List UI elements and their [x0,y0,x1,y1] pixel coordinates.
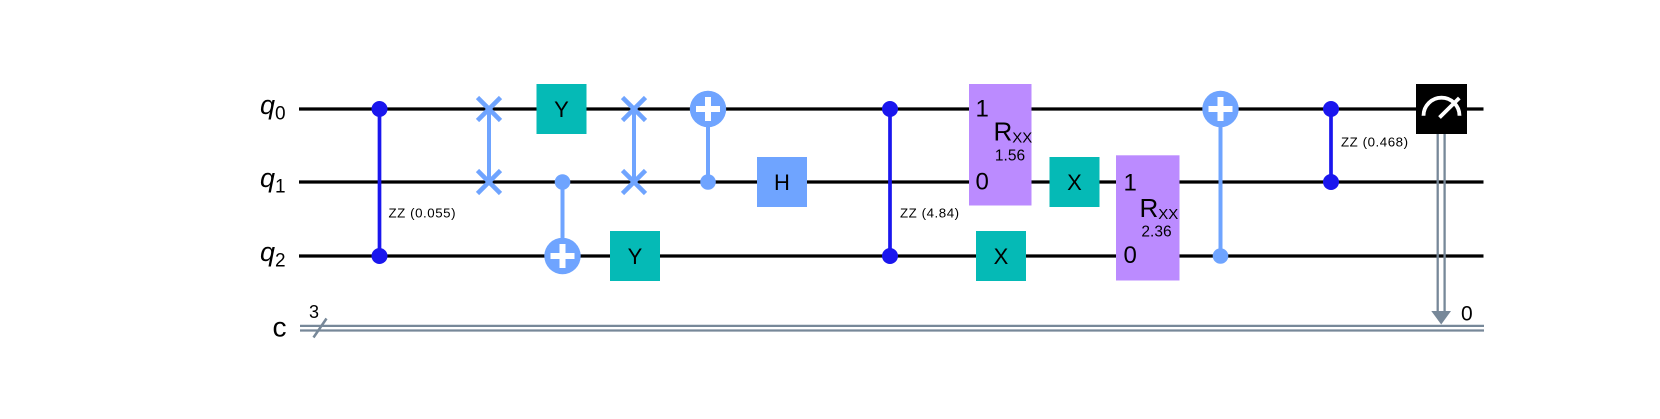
measure gate q0 to clbit 0 [1416,84,1473,325]
X gate q2 [976,231,1026,281]
Y gate q0 [537,84,587,134]
svg-text:0: 0 [976,169,989,196]
svg-text:H: H [774,170,790,195]
Y gate q2 [610,231,660,281]
svg-text:c: c [273,312,287,343]
wire q2 [299,254,1484,257]
svg-text:X: X [1067,170,1082,195]
rzz gate ZZ (4.84) q0-q2 [882,101,960,264]
rxx gate Rxx(1.56) q0-q1 [969,84,1032,206]
svg-text:3: 3 [309,302,319,322]
svg-text:ZZ (0.055): ZZ (0.055) [389,206,457,221]
svg-text:2.36: 2.36 [1141,224,1171,241]
svg-text:1: 1 [1124,169,1137,196]
svg-text:Y: Y [554,97,569,122]
rzz gate ZZ (0.468) q0-q1 [1323,101,1409,190]
svg-text:0: 0 [1124,242,1137,269]
svg-text:Y: Y [628,244,643,269]
cx gate control q1 target q0 [690,91,726,190]
rxx gate Rxx(2.36) q1-q2 [1116,155,1180,280]
wire q1 [299,180,1484,183]
classical bundle slash with width 3 [309,302,327,338]
rzz gate ZZ (0.055) q0-q2 [372,101,457,264]
X gate q1 [1050,157,1100,207]
svg-text:X: X [994,244,1009,269]
swap gate q0-q1 first [478,98,501,194]
classical wire c (double line) [300,326,1484,331]
svg-text:1.56: 1.56 [995,148,1025,165]
H gate q1 [757,157,807,207]
svg-text:0: 0 [1461,302,1473,325]
svg-text:ZZ (4.84): ZZ (4.84) [900,206,960,221]
svg-text:1: 1 [976,96,989,123]
swap gate q0-q1 second [623,98,646,194]
cx gate control q1 target q2 [544,174,580,274]
svg-text:ZZ (0.468): ZZ (0.468) [1341,135,1409,150]
wire q0 [299,107,1484,110]
cx gate control q2 target q0 [1202,91,1238,264]
